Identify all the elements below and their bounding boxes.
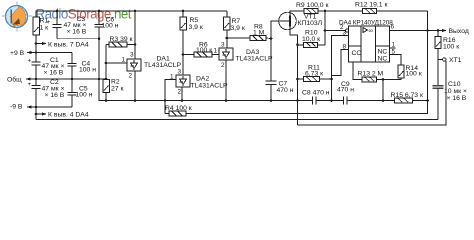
R8 value label [253,24,265,37]
svg-text:NC: NC [378,56,388,63]
output label Vyhod [449,28,469,35]
DA3 label [236,49,273,63]
resistor R5 [180,10,187,75]
resistor R1 [33,17,40,35]
capacitor C1 [32,53,41,80]
node C7 on net [270,99,273,102]
bottom net left segment [105,99,167,102]
C5 value label [76,86,93,99]
DA1 pin2 number [129,73,133,80]
C2 value label [42,79,65,99]
svg-text:2: 2 [129,73,133,80]
R5 value label [189,17,203,31]
DA3 pin3 number [221,42,225,49]
capacitor C10 (electrolytic) [433,60,444,120]
wire R13 junction down to net [382,79,384,100]
wire pin2 riser [324,11,326,45]
C3 plus sign [47,19,51,26]
node output rail drop [426,29,429,32]
svg-text:+9 В: +9 В [10,50,25,57]
DA4 pin6 wire output [390,30,443,32]
DA4 pin1 number [392,42,396,49]
C3 value label [64,16,87,36]
R12 value label [355,2,387,9]
R3 value label [110,36,133,43]
svg-text:R9 100,0 к: R9 100,0 к [296,2,328,9]
svg-text:R5: R5 [190,17,199,24]
vertical wire R3/DA1.1/R2 column [105,45,107,80]
resistor R14 [383,55,404,80]
svg-text:Общ: Общ [7,76,22,84]
DA2 pin1 wire [165,80,176,101]
wire DA4 pin8 path [332,50,349,76]
bottom return wire R4 to R15 [186,101,428,114]
svg-text:100 н: 100 н [76,92,93,99]
svg-text:27 к: 27 к [111,86,123,93]
R16 value label [443,37,459,51]
svg-text:ХТ1: ХТ1 [449,57,462,64]
svg-text:10,0 к: 10,0 к [302,36,320,43]
svg-text:× 16 В: × 16 В [44,70,64,77]
svg-text:R3 39 к: R3 39 к [110,36,133,43]
R7 value label [231,18,245,32]
node R8 tap [226,37,229,40]
capacitor C4 [68,53,77,80]
node C1/C2 common [35,78,38,81]
C4 value label [79,61,96,74]
node pin2 tap [324,29,327,32]
common terminal arrow [26,77,31,80]
wire R4 drop [164,101,166,114]
R13 value label [358,71,384,78]
svg-text:R2: R2 [111,79,120,86]
DA4 NC texts [378,49,388,63]
label K vyv 4 DA4 [48,112,89,119]
wire common rail down to bottom net [99,79,312,101]
resistor R16 [435,29,441,59]
svg-text:+: + [28,58,32,65]
svg-text:× 16 В: × 16 В [447,95,467,102]
C1 value label [42,57,65,77]
svg-text:1: 1 [214,48,218,55]
C1 plus sign [28,58,32,65]
svg-text:CC: CC [352,50,362,57]
C6 value label [102,17,119,30]
svg-text:1: 1 [170,74,174,81]
svg-text:10 мк ×: 10 мк × [444,88,467,95]
Obshch label [7,76,22,84]
node branch to DA4 pin7 [35,42,38,45]
svg-text:1 М: 1 М [253,30,265,37]
svg-text:+: + [47,19,51,26]
C8 value label [302,90,330,97]
svg-text:TL431ACLP: TL431ACLP [236,56,273,63]
C7 value label [277,81,294,95]
R14 value label [406,65,422,78]
DA4 pin2 number [340,24,344,31]
wire arrow to DA4 pin 7 [36,42,47,45]
wire C6 column down to common rail [98,39,100,79]
svg-text:470 н: 470 н [277,87,294,94]
top rail wire (+9V filtered) [36,11,227,17]
svg-text:К выв. 4 DA4: К выв. 4 DA4 [48,112,89,119]
resistor R4 [165,111,186,116]
DA4 CC text [352,50,362,57]
-9V terminal arrow [27,105,32,108]
IC DA2 TL431ACLP [176,75,190,87]
resistor R9 [304,9,363,14]
DA4 pin3 number [343,30,347,37]
svg-text:КП103Л: КП103Л [298,20,323,27]
svg-text:100 н: 100 н [79,67,96,74]
wire -9V down to pin4 branch [35,107,37,120]
wire to DA4 pin2 with inversion bubble [325,29,349,32]
resistor R3 [106,42,135,47]
DA2 pin2 wire [181,87,183,101]
svg-text:100 к: 100 к [196,47,212,54]
svg-text:8: 8 [343,44,347,51]
DA4 pin6 number [391,24,395,31]
svg-text:100 н: 100 н [102,23,119,30]
svg-text:+: + [28,81,32,88]
wire VT1 drain column [297,45,299,125]
resistor R11 [296,77,331,82]
XT1 label [449,57,462,64]
svg-text:100 к: 100 к [406,71,422,78]
svg-text:NC: NC [378,49,388,56]
node -9V column [35,106,38,109]
opamp DA4 KR140UD1208 [349,26,390,62]
wire DA1 pin3 column [134,10,137,59]
node top rail to DA4 pin2 [324,10,327,13]
R9 value label [296,2,328,9]
node R6 tap [182,53,185,56]
resistor R13 [353,62,383,82]
wire C3 bottom to C6 column [57,38,99,40]
svg-text:∞: ∞ [369,28,374,35]
node R11 right [330,78,333,81]
svg-text:2: 2 [221,62,225,69]
transistor VT1 KP103L [279,11,304,45]
DA4 amp infinity mark [369,28,374,35]
svg-text:× 16 В: × 16 В [67,29,87,36]
svg-text:6: 6 [391,24,395,31]
+9V rail wire [27,52,72,54]
wire R1 bottom to +9V rail [35,35,37,53]
DA4 pin8 number [343,44,347,51]
DA1 pin2 wire [134,71,136,101]
common rail (Obshch) [26,78,107,80]
resistor R12 [363,9,428,14]
VT1 label [298,14,323,28]
node R15 right [426,99,429,102]
svg-text:× 16 В: × 16 В [45,92,65,99]
svg-text:6,73 к: 6,73 к [305,71,323,78]
output arrow [442,29,447,32]
svg-text:R13 2 М: R13 2 М [358,71,384,78]
IC DA3 TL431ACLP [219,48,233,60]
C10 value label [444,81,467,102]
terminal XT1 [438,58,446,61]
svg-text:R15 6,73 к: R15 6,73 к [391,92,423,99]
resistor R8 [227,36,271,41]
wire gate riser [271,21,289,39]
node R15 left [382,99,385,102]
resistor R15 [395,98,428,103]
resistor R6 [183,52,219,57]
svg-text:1: 1 [122,57,126,64]
-9V rail wire [27,106,72,108]
node R1/+9V [35,51,38,54]
DA4 pin1 stub [390,47,396,49]
node branch to DA4 pin4 [35,113,38,116]
DA4 label [339,20,393,27]
svg-text:100 к: 100 к [443,44,459,51]
DA2 pin3 number [178,69,182,76]
svg-text:1: 1 [392,42,396,49]
capacitor C2 [32,79,41,107]
node R13/R14 junction [382,78,385,81]
DA3 pin1 number [214,48,218,55]
svg-text:R4 100 к: R4 100 к [165,105,192,112]
DA1 pin1 number [122,57,126,64]
capacitor C5 [68,79,77,107]
svg-text:DA2: DA2 [196,76,209,83]
IC DA1 TL431ACLP [127,59,141,71]
svg-text:C10: C10 [448,81,461,88]
DA1 pin3 number [130,52,134,59]
DA1 pin1 wire [106,62,127,64]
-9V label [10,104,23,111]
R1 value label [40,18,49,32]
node C8 right / pin3 column [330,99,333,102]
+9V terminal arrow [27,51,32,54]
svg-text:3: 3 [343,30,347,37]
node common/R2 top [105,78,108,81]
R4 value label [165,105,192,112]
node DA1 pin1 junction [105,62,108,65]
capacitor C6 [95,10,104,39]
svg-text:470 н: 470 н [337,87,354,94]
wire top rail drop to output [427,11,429,101]
+9V label [10,50,25,57]
svg-text:3: 3 [221,42,225,49]
R6 value label [196,42,212,55]
node DA2 pin2 on net [181,99,184,102]
DA4 pin5 stub [390,54,396,56]
DA2 pin1 number [170,74,174,81]
bottom return wire -9V to C10 [36,119,438,121]
label K vyv 7 DA4 [48,42,89,49]
svg-text:-9 В: -9 В [10,104,23,111]
DA3 pin2 number [221,62,225,69]
watermark logo radiostorage [2,2,132,32]
DA3 pin2 wire [225,60,227,101]
R15 value label [391,92,423,99]
resistor R10 [296,42,325,47]
DA1 label [144,56,181,70]
svg-text:3,9 к: 3,9 к [189,24,203,31]
C9 value label [337,81,354,94]
node R8/C7/gate junction [270,37,273,40]
svg-text:3: 3 [178,69,182,76]
bottom return wire drain net to XT1 [298,61,447,125]
wire DA4 pin3 column [332,36,349,101]
capacitor C8 (series) [296,96,343,104]
resistor R7 [224,11,231,48]
capacitor C3 (electrolytic) [53,10,62,39]
R11 value label [305,65,323,78]
capacitor C7 [266,39,277,101]
node C6 bottom [98,37,101,40]
resistor R2 [103,80,110,101]
wire arrow to DA4 pin 4 [36,112,47,115]
R2 value label [111,79,123,93]
svg-text:R12 19,1 к: R12 19,1 к [355,2,387,9]
capacitor C9 (series) [344,96,395,104]
svg-text:TL431ACLP: TL431ACLP [191,83,228,90]
svg-text:3: 3 [130,52,134,59]
svg-text:Выход: Выход [449,28,469,35]
svg-text:3,9 к: 3,9 к [231,25,245,32]
node C4/C5 common [71,78,74,81]
node DA3 pin2 on net [225,99,228,102]
R10 value label [302,30,320,44]
DA4 pin5 number [392,49,396,56]
DA2 pin2 number [178,89,182,96]
node common rail at C6 column [98,78,101,81]
svg-text:DA4 КР140УД1208: DA4 КР140УД1208 [339,20,393,27]
svg-text:2: 2 [178,89,182,96]
svg-text:К выв. 7 DA4: К выв. 7 DA4 [48,42,89,49]
svg-text:TL431ACLP: TL431ACLP [144,62,181,69]
svg-text:R7: R7 [232,18,241,25]
DA2 label [191,76,228,90]
svg-text:5: 5 [392,49,396,56]
svg-text:C8 470 н: C8 470 н [302,90,330,97]
C2 plus sign [28,81,32,88]
